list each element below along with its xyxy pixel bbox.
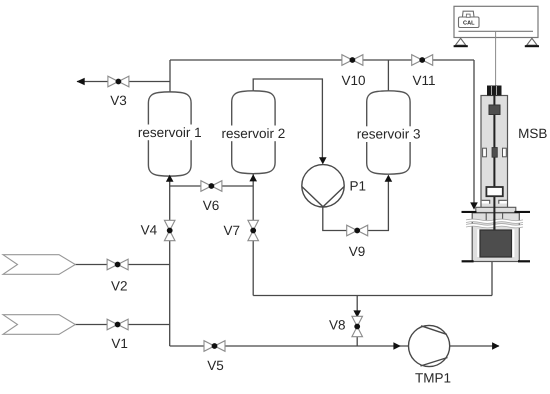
svg-text:V4: V4 xyxy=(141,222,158,237)
svg-text:P1: P1 xyxy=(350,178,367,193)
svg-text:V9: V9 xyxy=(349,244,366,259)
svg-text:V5: V5 xyxy=(207,358,224,373)
svg-text:V2: V2 xyxy=(111,278,128,293)
svg-text:V7: V7 xyxy=(223,223,240,238)
svg-text:V1: V1 xyxy=(111,336,128,351)
svg-text:V6: V6 xyxy=(203,198,220,213)
svg-text:V10: V10 xyxy=(341,73,365,88)
svg-text:reservoir 1: reservoir 1 xyxy=(138,125,202,140)
svg-text:MSB: MSB xyxy=(518,126,547,141)
svg-text:V8: V8 xyxy=(329,318,346,333)
svg-text:TMP1: TMP1 xyxy=(415,371,451,386)
svg-text:reservoir 3: reservoir 3 xyxy=(357,127,421,142)
svg-text:reservoir 2: reservoir 2 xyxy=(222,126,286,141)
svg-text:V11: V11 xyxy=(412,73,435,88)
svg-text:V3: V3 xyxy=(110,93,127,108)
svg-text:CAL: CAL xyxy=(463,21,475,27)
